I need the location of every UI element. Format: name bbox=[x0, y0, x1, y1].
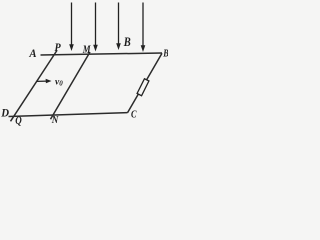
rod MN bbox=[51, 52, 91, 119]
field arrow 2 bbox=[93, 3, 98, 52]
rod PQ bbox=[11, 50, 58, 121]
field arrow 4 bbox=[141, 3, 146, 53]
wire top rail A-B bbox=[41, 53, 163, 55]
svg-text:Q: Q bbox=[15, 115, 22, 127]
velocity arrow v0 bbox=[37, 79, 52, 83]
svg-text:B: B bbox=[123, 34, 131, 49]
field arrow 3 bbox=[116, 3, 121, 51]
svg-text:P: P bbox=[55, 40, 62, 54]
wire B-C right edge bbox=[128, 53, 163, 112]
svg-text:A: A bbox=[29, 46, 37, 60]
resistor R bbox=[137, 79, 149, 96]
svg-text:D: D bbox=[0, 106, 9, 120]
svg-text:0: 0 bbox=[59, 80, 63, 88]
wire bottom rail D-C bbox=[9, 113, 128, 117]
field arrow 1 bbox=[69, 3, 74, 52]
svg-text:B: B bbox=[162, 47, 168, 59]
svg-text:M: M bbox=[82, 42, 91, 56]
svg-text:N: N bbox=[51, 114, 59, 126]
svg-text:C: C bbox=[131, 109, 137, 121]
